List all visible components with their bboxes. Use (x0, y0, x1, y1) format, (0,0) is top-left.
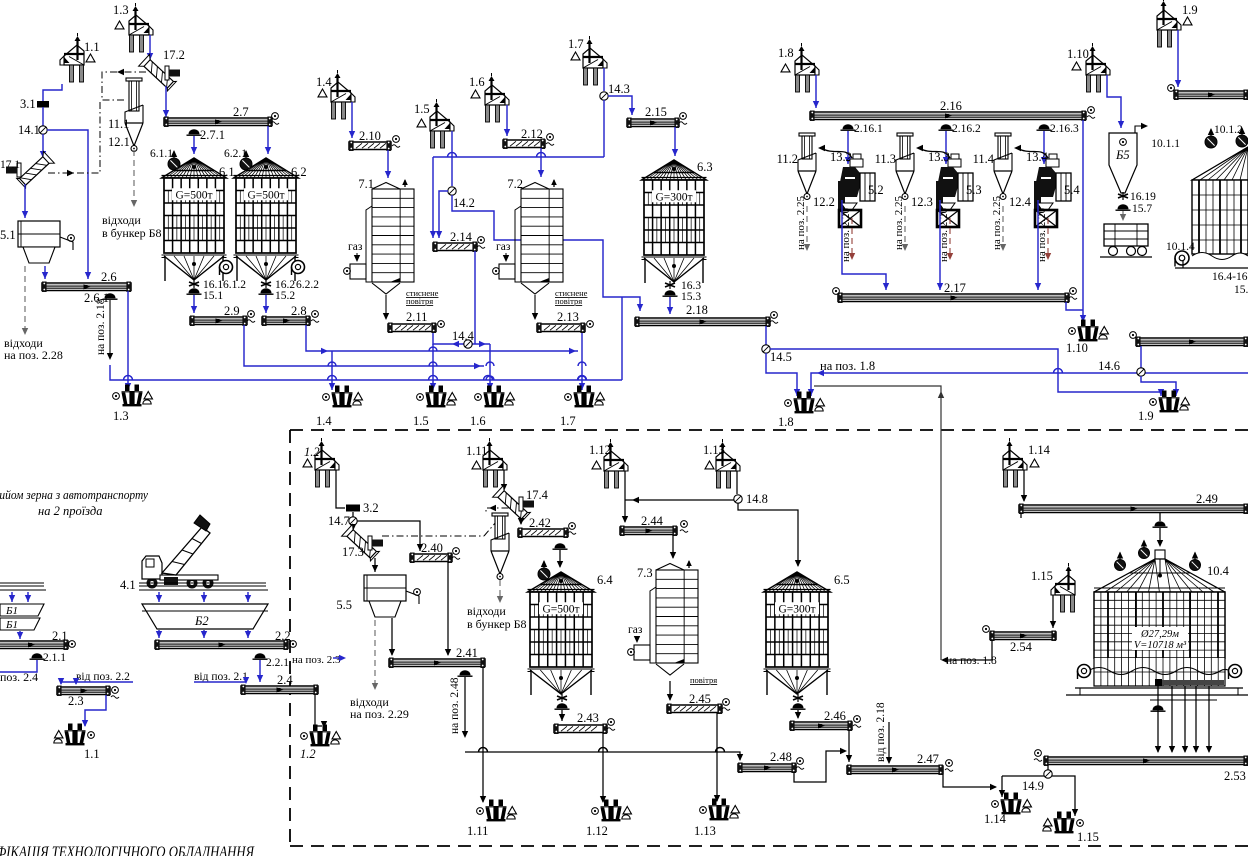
svg-text:5.4: 5.4 (1064, 183, 1080, 197)
outlet 2.16.2 (941, 124, 952, 129)
elevator head 1.6 (485, 73, 509, 122)
conveyor 2.7 (164, 118, 272, 126)
silo 10.4 roof (1155, 550, 1165, 559)
svg-text:1.2: 1.2 (300, 747, 316, 761)
elevator boot 1.2 (310, 725, 331, 747)
outlet under 2.42 (555, 543, 566, 548)
svg-text:2.53: 2.53 (1224, 769, 1246, 783)
conveyor 2.12 (503, 140, 545, 148)
svg-text:15.4: 15.4 (1234, 284, 1248, 296)
wire 2.46 to conveyor 2.47 (848, 730, 850, 762)
wire 17.1 to separator 5.1 (24, 184, 26, 218)
svg-text:14.2: 14.2 (453, 196, 475, 210)
wire 17.2 to conveyor 2.7 (165, 86, 167, 117)
svg-text:6.2.2: 6.2.2 (296, 279, 319, 291)
grain wire separator 5.2 to conveyor 2.17 (842, 200, 886, 290)
svg-text:6.5: 6.5 (834, 573, 850, 587)
wire 1.14 to conveyor 2.49 (1023, 470, 1025, 501)
fan 6.4.1 (538, 568, 550, 580)
line y350 from 14.5 to right (770, 349, 1161, 396)
svg-text:на поз. 1.8: на поз. 1.8 (820, 359, 875, 373)
svg-text:13.4: 13.4 (1026, 150, 1049, 164)
svg-text:6.2: 6.2 (291, 165, 307, 179)
silo 10.1 roof (1192, 147, 1248, 180)
svg-text:2.41: 2.41 (456, 646, 478, 660)
wire 14.2 to 2.14 (439, 191, 448, 238)
cyclone 11.2 (799, 133, 815, 136)
svg-text:1.8: 1.8 (778, 415, 794, 429)
wire 14.5 to boot 1.8 (766, 353, 797, 396)
svg-text:2.2: 2.2 (275, 629, 291, 643)
svg-text:1.12: 1.12 (589, 443, 611, 457)
wire 14.1 to screw 17.1 (42, 134, 44, 158)
svg-text:G=500т: G=500т (542, 603, 579, 615)
svg-text:прийом зерна з автотранспорту: прийом зерна з автотранспорту (0, 488, 148, 502)
wire 2.44 to dryer 7.3 (672, 535, 674, 558)
wire 2.43 to boot 1.12 (602, 733, 604, 802)
svg-text:1.9: 1.9 (1138, 409, 1154, 423)
svg-text:13.2: 13.2 (830, 150, 852, 164)
svg-text:1.7: 1.7 (568, 37, 584, 51)
valve 14.1 (39, 126, 47, 134)
wire 2.14 to valve 14.4 (474, 251, 476, 344)
svg-text:2.44: 2.44 (641, 514, 664, 528)
svg-text:14.1: 14.1 (18, 123, 40, 137)
svg-text:від поз. 2.2: від поз. 2.2 (76, 671, 130, 683)
wire 2.40 to conveyor 2.41 (447, 562, 449, 655)
waste line na poz 2.25 (904, 206, 906, 249)
feeder 15.7 (1118, 204, 1129, 209)
wire 2.7.1 to silo 6.1 (193, 136, 195, 154)
dryer 7.2 (521, 183, 549, 190)
dump truck 4.1 (147, 578, 158, 589)
wire 1.4 to conveyor 2.10 (351, 102, 353, 138)
svg-text:Б5: Б5 (1115, 148, 1130, 162)
svg-text:2.12: 2.12 (521, 127, 543, 141)
wire 1.8 to conveyor 2.16 (815, 75, 817, 108)
dashed border of second production line section (290, 430, 1248, 846)
svg-text:2.16: 2.16 (940, 99, 962, 113)
svg-text:1.4: 1.4 (316, 414, 332, 428)
silo 10.1 wavy break (1192, 253, 1248, 260)
conveyor 2.50 top right (1136, 338, 1248, 346)
elevator boot 1.9 (1159, 391, 1180, 413)
elevator head 1.14 (1003, 438, 1027, 487)
wire 14.9 to boots 1.14 1.15 (1001, 776, 1003, 797)
svg-text:6.3: 6.3 (697, 160, 713, 174)
conveyor 2.41 (389, 659, 485, 667)
svg-text:1.9: 1.9 (1182, 3, 1198, 17)
elevator boot 1.5 (426, 386, 447, 408)
svg-text:2.16.2: 2.16.2 (952, 123, 981, 135)
silo 10.1 base (1175, 260, 1248, 268)
screw conveyor 17.2 (139, 54, 178, 92)
wire 2.4 to boot 1.2 (315, 695, 322, 726)
wire 2.15 to silo 6.3 (674, 127, 676, 156)
elevator head 1.10 (1086, 43, 1110, 92)
svg-text:1.10: 1.10 (1066, 341, 1088, 355)
wire 1.10 to bunker B5 (1107, 75, 1121, 128)
wire 14.2 bypass to 2.18 (452, 195, 640, 311)
svg-text:2.11: 2.11 (406, 310, 427, 324)
wire from 1.1 to gate 3.1 (43, 84, 62, 101)
elevator boot 1.13 (709, 799, 730, 821)
svg-text:5.2: 5.2 (868, 183, 884, 197)
wires B2 down (158, 592, 160, 602)
wire bus to boot 1.4 (331, 351, 333, 390)
svg-text:1.14: 1.14 (1028, 443, 1051, 457)
wire 14.6 to boot 1.9 (1141, 376, 1176, 396)
svg-text:14.4: 14.4 (452, 329, 475, 343)
silo 6.3 G=300t (642, 160, 707, 180)
svg-text:2.40: 2.40 (421, 541, 443, 555)
svg-text:1.14: 1.14 (984, 812, 1007, 826)
silo capacity label (1132, 627, 1188, 650)
svg-text:6.4: 6.4 (597, 573, 613, 587)
valve 14.9 (1044, 770, 1052, 778)
svg-text:G=500т: G=500т (175, 189, 212, 201)
wire to silo 6.4 (559, 550, 561, 567)
separator 5.3 (951, 154, 959, 159)
svg-text:2.7: 2.7 (233, 105, 249, 119)
wire 2.8 route to bus y351 (306, 325, 332, 351)
svg-text:2.8: 2.8 (291, 304, 307, 318)
fan 10.1.4 (1175, 251, 1189, 265)
wire 2.2.1 to conveyor 2.4 (259, 660, 261, 682)
elevator head 1.9 (1157, 0, 1181, 47)
svg-text:13.3: 13.3 (928, 150, 950, 164)
aspiration duct to cyclone 11.1 (102, 72, 146, 100)
wire bus to conveyor 2.14 left (432, 157, 434, 238)
svg-text:11.3: 11.3 (875, 152, 896, 166)
svg-text:6.1.1: 6.1.1 (150, 148, 173, 160)
svg-text:2.9: 2.9 (224, 304, 240, 318)
truck on scale (1104, 224, 1148, 246)
svg-text:Б1: Б1 (5, 619, 18, 631)
svg-text:газ: газ (628, 624, 643, 636)
bunker B5 (1109, 133, 1137, 193)
feeder 15.3 (665, 290, 676, 295)
svg-text:7.1: 7.1 (358, 177, 374, 191)
gate 16.1 (193, 280, 195, 288)
svg-text:17.2: 17.2 (163, 48, 185, 62)
svg-text:2.1: 2.1 (52, 629, 68, 643)
conveyor 2.53 (1044, 757, 1248, 765)
unloading auger under 10.4 (1155, 679, 1162, 686)
elevator head 1.13 (716, 439, 740, 488)
svg-text:14.3: 14.3 (608, 82, 630, 96)
conveyor 2.1 (0, 641, 68, 649)
svg-text:повітря: повітря (406, 296, 433, 306)
gate valve 3.1 (37, 101, 49, 108)
elevator boot 1.11 (486, 800, 507, 822)
wire 7.3 to conveyor 2.45 (669, 681, 671, 700)
wire na poz 1.8 incoming (811, 373, 1248, 396)
cyclone for line 2 (492, 513, 508, 516)
fan 10.1.1 (1205, 136, 1217, 148)
wire 15.1 to conveyor 2.9 (193, 295, 195, 313)
outlet 2.16.1 (843, 124, 854, 129)
discharge drops to conveyor 2.53 (1157, 686, 1159, 752)
svg-text:1.7: 1.7 (560, 414, 576, 428)
dryer 7.1 (372, 183, 400, 190)
gate 3.2 (346, 505, 360, 512)
svg-text:1.1: 1.1 (84, 40, 100, 54)
elevator boot 1.12 (601, 800, 622, 822)
outlet on 2.49 to silo 10.4 (1155, 521, 1166, 526)
side fan 6.2.2 (292, 261, 305, 274)
wire 15.2 to conveyor 2.8 (265, 295, 267, 313)
wire 6.5 to conveyor 2.46 (797, 710, 799, 718)
svg-text:від поз. 2.18: від поз. 2.18 (875, 702, 887, 762)
valve 14.8 (734, 495, 742, 503)
elevator head 1.15 (1051, 563, 1075, 612)
svg-text:14.9: 14.9 (1022, 779, 1044, 793)
elevator head 1.4 (331, 70, 355, 119)
wire 14.4 to boot 1.6 (489, 344, 491, 390)
svg-text:2.14: 2.14 (450, 230, 473, 244)
feeder 15.2 (261, 288, 272, 293)
wire 14.8 to silo 6.5 (738, 503, 798, 566)
conveyor 2.46 (790, 722, 852, 730)
svg-text:4.1: 4.1 (120, 578, 136, 592)
svg-text:1.3: 1.3 (113, 409, 129, 423)
svg-text:1.5: 1.5 (413, 414, 429, 428)
svg-text:V=10718 м³: V=10718 м³ (1134, 640, 1187, 651)
waste line na poz 2.26 (851, 218, 853, 258)
wires B1 to conveyor 2.1 (11, 592, 13, 602)
conveyor 2.48 (738, 764, 796, 772)
wire 1.12 to conveyor 2.44 (624, 471, 626, 522)
outlet 2.7.1 (189, 129, 200, 134)
svg-text:10.1.1: 10.1.1 (1151, 138, 1180, 150)
wire 2.17 to boot 1.10 line (1066, 302, 1083, 310)
elevator head 1.2 top (315, 438, 339, 487)
silo 10.4 base and side fans (1078, 665, 1091, 678)
svg-text:2.46: 2.46 (824, 709, 846, 723)
svg-text:від поз. 2.1: від поз. 2.1 (194, 671, 248, 683)
wire 2.54 na poz 1.8 (944, 640, 992, 660)
svg-text:на поз. 2.18: на поз. 2.18 (95, 298, 107, 355)
svg-text:10.1.4: 10.1.4 (1166, 241, 1195, 253)
wire 2.13 to boot 1.7 (581, 333, 583, 390)
svg-text:14.8: 14.8 (746, 492, 768, 506)
elevator boot 1.8 (794, 392, 815, 414)
roof fans on 10.4 (1115, 560, 1126, 571)
wire 14.8 to 2.44 (625, 499, 734, 501)
receiving platform under truck (139, 583, 268, 590)
svg-text:2.13: 2.13 (557, 310, 579, 324)
svg-text:16.19: 16.19 (1130, 191, 1156, 203)
svg-text:на поз. 2.48: на поз. 2.48 (449, 677, 461, 734)
waste dashed from 5.5 to 2.29 (374, 620, 376, 688)
svg-text:газ: газ (348, 241, 363, 253)
svg-text:в бункер Б8: в бункер Б8 (467, 617, 526, 631)
separator 5.1 (18, 221, 60, 247)
gate 16.19 (1122, 192, 1124, 200)
outlet 2.2.1 (255, 653, 266, 658)
feeder on first drop (1153, 705, 1164, 710)
blue bus y366 (244, 325, 484, 366)
wire 1.6 to conveyor 2.12 (506, 105, 508, 136)
side fan 6.1.2 (220, 261, 233, 274)
receiving bunker B1 (0, 604, 44, 616)
cyclone 11.4 (995, 133, 1011, 136)
wire 2.48 to 2.47 (794, 751, 845, 782)
wire dryer 7.2 to conveyor 2.13 (534, 295, 536, 319)
silo 6.2 G=500t (234, 158, 299, 178)
svg-text:17.1: 17.1 (0, 159, 20, 171)
svg-text:2.48: 2.48 (770, 750, 792, 764)
svg-text:повітря: повітря (555, 296, 582, 306)
silo 6.4 G=500t (528, 572, 595, 592)
svg-text:1.15: 1.15 (1031, 569, 1053, 583)
receiving pit B1 platform (0, 583, 46, 590)
elevator head 1.5 (430, 99, 454, 148)
svg-text:на поз. 2.3: на поз. 2.3 (292, 654, 341, 666)
svg-text:в бункер Б8: в бункер Б8 (102, 226, 161, 240)
conveyor 2.44 (620, 527, 677, 535)
wire 2.53 to 14.9 (1047, 765, 1049, 770)
elevator boot 1.14 (1001, 793, 1022, 815)
svg-text:2.42: 2.42 (529, 516, 551, 530)
wire 14.4 to boot 1.5 (432, 344, 434, 390)
conveyor 2.16 (810, 112, 1086, 120)
fan 6.1.1 (168, 158, 180, 170)
svg-text:1.12: 1.12 (586, 824, 608, 838)
svg-text:на поз. 2.25: на поз. 2.25 (795, 195, 807, 250)
svg-text:5.5: 5.5 (336, 598, 352, 612)
conveyor 2.4 (241, 686, 318, 694)
svg-text:поз. 2.4: поз. 2.4 (0, 670, 38, 684)
blue bus y157 to dryers (433, 156, 604, 158)
wire 2.16 right end down to boot 1.10 (1082, 120, 1084, 322)
svg-text:11.1: 11.1 (108, 117, 129, 131)
svg-text:6.1: 6.1 (219, 165, 235, 179)
svg-text:10.4: 10.4 (1207, 564, 1230, 578)
svg-text:15.7: 15.7 (1132, 203, 1152, 215)
svg-text:12.1: 12.1 (108, 135, 130, 149)
conveyor 2.2 (155, 641, 288, 649)
conveyor 2.40 (410, 554, 452, 562)
wire 17.4 to conveyor 2.42 (520, 519, 522, 524)
elevator boot 1.10 (1078, 320, 1099, 342)
svg-text:G=300т: G=300т (778, 603, 815, 615)
wire 2.41 to boot 1.11 (482, 667, 484, 802)
fan 6.2.1 (240, 158, 252, 170)
conveyor 2.10 (349, 142, 391, 150)
svg-text:14.5: 14.5 (770, 350, 792, 364)
svg-text:на поз. 2.29: на поз. 2.29 (350, 707, 409, 721)
svg-text:2.7.1: 2.7.1 (200, 128, 225, 142)
svg-text:2.1.1: 2.1.1 (43, 652, 66, 664)
svg-text:1.11: 1.11 (466, 444, 487, 458)
conveyor 2.49 (1019, 505, 1248, 513)
svg-text:1.2: 1.2 (304, 445, 320, 459)
svg-text:G=300т: G=300т (655, 191, 692, 203)
wire 2.6 to boot 1.3 and bus (127, 291, 129, 390)
svg-text:1.6: 1.6 (470, 414, 486, 428)
silo 10.4 body (1094, 592, 1225, 658)
conveyor 2.47 (847, 766, 943, 774)
svg-text:G=500т: G=500т (247, 189, 284, 201)
svg-text:2.17: 2.17 (944, 281, 966, 295)
gate and feeder under 6.5 (797, 694, 799, 702)
svg-text:14.6: 14.6 (1098, 359, 1120, 373)
svg-text:3.1: 3.1 (20, 97, 36, 111)
separator 5.2 (853, 154, 861, 159)
grain wire separator 5.4 to conveyor 2.17 (1037, 200, 1039, 290)
valve 14.4 and distribution (433, 333, 490, 344)
waste line na poz 2.26 (949, 218, 951, 258)
waste line to bunker B8 (133, 150, 135, 205)
svg-text:17.3: 17.3 (342, 545, 364, 559)
elevator head 1.12 (604, 439, 628, 488)
conveyor 2.8 (262, 317, 310, 325)
svg-text:відходи: відходи (467, 604, 506, 618)
silo 10.1 body (1192, 180, 1248, 254)
cyclone 11.3 (897, 133, 913, 136)
svg-text:17.4: 17.4 (526, 488, 549, 502)
wire to truck scale (1122, 211, 1124, 219)
conveyor 2.45 (667, 705, 722, 713)
svg-text:2.16.3: 2.16.3 (1050, 123, 1079, 135)
svg-text:5.1: 5.1 (0, 228, 16, 242)
svg-text:2.45: 2.45 (689, 692, 711, 706)
wire 14.3 to conveyor 2.15 (608, 96, 632, 115)
silo 10.4 wavy break and lower grid (1094, 658, 1225, 686)
elevator boot 1.4 (332, 386, 353, 408)
cyclone 11.1 (126, 78, 142, 81)
line to pos 2.18 (109, 300, 111, 358)
svg-text:2.54: 2.54 (1010, 640, 1033, 654)
svg-text:відходи: відходи (102, 213, 141, 227)
svg-text:16.4-16.8: 16.4-16.8 (1212, 271, 1248, 283)
svg-text:на 2 проїзда: на 2 проїзда (38, 504, 102, 518)
svg-text:12.3: 12.3 (911, 195, 933, 209)
wire 1.11 to screw 17.4 (503, 470, 505, 490)
conveyor 2.42 (518, 529, 568, 537)
svg-text:1.3: 1.3 (113, 3, 129, 17)
svg-text:2.49: 2.49 (1196, 492, 1218, 506)
wire 14.3 down to dryer bus (603, 100, 605, 157)
svg-text:1.11: 1.11 (467, 824, 488, 838)
svg-text:3.2: 3.2 (363, 501, 379, 515)
svg-text:10.1.2: 10.1.2 (1214, 124, 1243, 136)
separator 5.5 (364, 575, 406, 601)
svg-text:на поз. 2.25: на поз. 2.25 (893, 195, 905, 250)
svg-text:2.15: 2.15 (645, 105, 667, 119)
svg-text:1.13: 1.13 (694, 824, 716, 838)
svg-text:1.15: 1.15 (1077, 830, 1099, 844)
svg-text:1.13: 1.13 (703, 443, 725, 457)
wire 1.13 to valve 14.8 (736, 471, 738, 494)
svg-text:15.2: 15.2 (275, 290, 295, 302)
wire 14.7 to screw 17.3 (352, 525, 354, 530)
elevator boot 1.15 (1054, 812, 1075, 834)
elevator head 1.1 (60, 33, 84, 82)
wire 1.15 to conveyor 2.54 (1052, 595, 1054, 628)
wire 2.47 to boot 1.14 (943, 774, 996, 787)
wire 1.7 to valve 14.3 (603, 68, 605, 91)
wire 2.18 to valve 14.5 (765, 326, 767, 345)
conveyor 2.15 (627, 119, 679, 127)
conveyor 2.17 (838, 294, 1069, 302)
black return line from bottom section (814, 386, 941, 660)
wire 3.1 to 14.1 (42, 107, 44, 126)
svg-text:14.7: 14.7 (328, 514, 350, 528)
svg-text:15.3: 15.3 (681, 291, 701, 303)
